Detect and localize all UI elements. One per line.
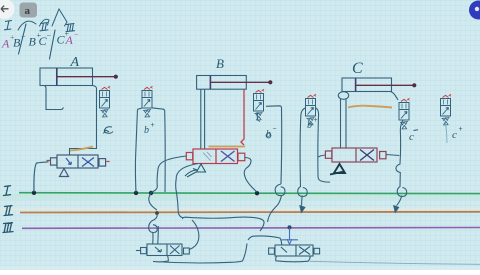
svg-text:A: A [70, 55, 80, 70]
svg-text:+: + [151, 122, 155, 129]
svg-text:b: b [144, 125, 149, 136]
svg-text:c: c [452, 129, 457, 141]
svg-text:b: b [307, 120, 312, 131]
svg-text:+: + [314, 117, 318, 124]
svg-text:−: − [46, 31, 51, 40]
svg-text:−: − [74, 30, 79, 39]
svg-text:a: a [25, 5, 31, 17]
svg-text:+: + [459, 126, 463, 133]
svg-text:−: − [21, 32, 26, 41]
svg-text:c: c [409, 131, 414, 143]
svg-text:B: B [216, 56, 224, 71]
svg-text:+: + [64, 30, 69, 39]
svg-text:C: C [352, 60, 363, 77]
svg-text:−: − [273, 126, 277, 133]
